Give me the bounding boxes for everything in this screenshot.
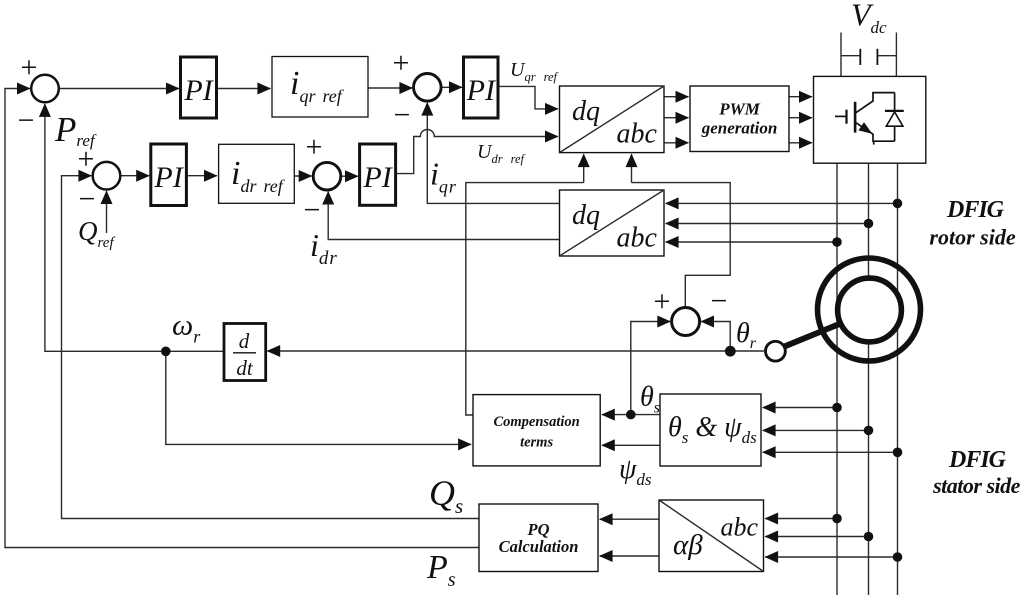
svg-text:Qref: Qref bbox=[78, 216, 115, 251]
svg-text:θs: θs bbox=[640, 382, 660, 417]
svg-text:Calculation: Calculation bbox=[499, 537, 579, 556]
svg-text:abc: abc bbox=[721, 513, 759, 542]
svg-text:rotor side: rotor side bbox=[929, 224, 1015, 249]
svg-text:dq: dq bbox=[572, 96, 600, 127]
svg-text:PI: PI bbox=[183, 74, 214, 107]
svg-text:dq: dq bbox=[572, 200, 600, 231]
svg-text:PI: PI bbox=[153, 161, 184, 194]
svg-text:abc: abc bbox=[617, 223, 658, 254]
svg-text:generation: generation bbox=[701, 119, 778, 138]
svg-text:Qs: Qs bbox=[429, 473, 463, 518]
svg-text:dt: dt bbox=[236, 356, 254, 380]
svg-text:PWM: PWM bbox=[718, 100, 761, 119]
svg-text:ωr: ωr bbox=[172, 309, 201, 347]
svg-text:+: + bbox=[393, 47, 410, 80]
svg-text:−: − bbox=[394, 99, 411, 132]
svg-text:−: − bbox=[18, 104, 35, 137]
svg-text:iqr: iqr bbox=[430, 156, 457, 197]
svg-text:Uqrref: Uqrref bbox=[510, 59, 559, 84]
svg-text:d: d bbox=[239, 329, 250, 353]
svg-text:stator side: stator side bbox=[932, 473, 1021, 498]
svg-text:PI: PI bbox=[466, 74, 497, 107]
svg-text:Pref: Pref bbox=[54, 110, 97, 150]
svg-text:−: − bbox=[304, 194, 321, 227]
svg-text:terms: terms bbox=[520, 435, 553, 451]
svg-text:−: − bbox=[79, 183, 96, 216]
svg-text:+: + bbox=[654, 285, 671, 318]
svg-text:ψds: ψds bbox=[619, 454, 652, 489]
svg-text:Udrref: Udrref bbox=[477, 141, 526, 166]
svg-text:Vdc: Vdc bbox=[851, 0, 887, 37]
svg-text:Ps: Ps bbox=[426, 549, 456, 591]
svg-text:Compensation: Compensation bbox=[493, 414, 579, 430]
svg-text:PI: PI bbox=[362, 161, 393, 194]
svg-text:θr: θr bbox=[736, 318, 757, 352]
svg-text:+: + bbox=[306, 131, 323, 164]
svg-text:αβ: αβ bbox=[673, 529, 703, 561]
svg-text:idr: idr bbox=[310, 227, 338, 269]
svg-text:DFIG: DFIG bbox=[948, 447, 1007, 473]
svg-text:−: − bbox=[711, 285, 728, 318]
svg-text:abc: abc bbox=[617, 119, 658, 150]
svg-text:+: + bbox=[21, 51, 38, 84]
svg-text:DFIG: DFIG bbox=[946, 197, 1005, 223]
